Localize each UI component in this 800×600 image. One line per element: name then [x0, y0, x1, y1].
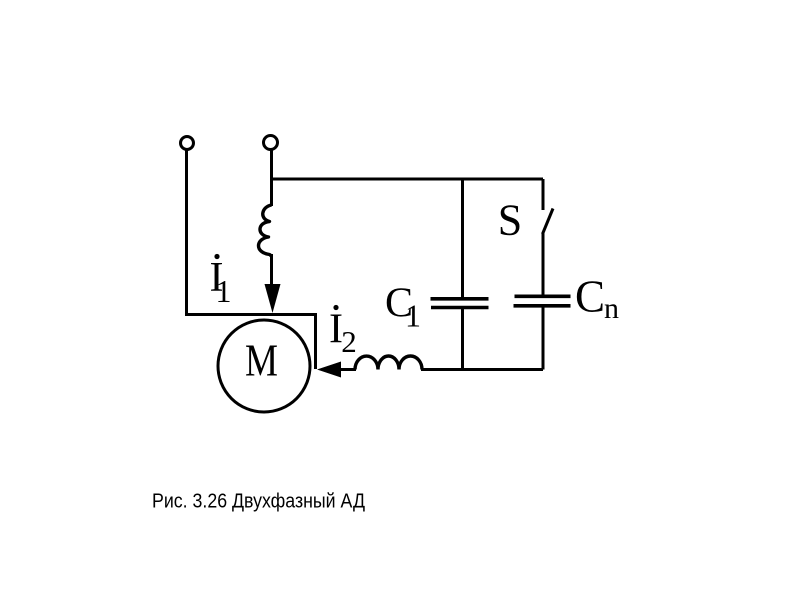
svg-text:n: n [604, 292, 619, 325]
wire: arrow tail to auxiliary inductor [339, 368, 356, 371]
capacitor Cn bottom plate [514, 304, 571, 308]
wire: switch branch upper contact [542, 179, 545, 210]
svg-text:1: 1 [405, 298, 421, 334]
wire: C1 branch lower [461, 309, 464, 370]
wire: C1 branch upper [461, 179, 464, 298]
wire: right terminal down to inductor L1 [270, 150, 273, 206]
inductor L2 (auxiliary winding, horizontal coil) [355, 356, 422, 370]
wire: switch to capacitor Cn [542, 233, 545, 296]
wire: left terminal down to motor top wire [185, 150, 188, 315]
capacitor Cn top plate [515, 294, 571, 298]
switch S blade [543, 209, 554, 235]
inductor L1 (main winding, vertical coil) [259, 205, 272, 256]
capacitor C1 top plate [431, 297, 489, 301]
wire: Cn branch lower [542, 308, 545, 370]
label I1 (dot above) [214, 254, 219, 259]
terminal T2 (right input) [264, 136, 278, 150]
svg-text:1: 1 [216, 273, 232, 309]
wire: inductor L1 to arrow [270, 254, 273, 288]
svg-text:C: C [575, 272, 605, 322]
motor M (circle) [218, 320, 310, 412]
arrow I2 (current direction into motor, pointing left) [317, 362, 341, 378]
wire: horizontal over motor and down right side [185, 315, 316, 370]
label I2 (dot above) [333, 305, 338, 310]
terminal T1 (left input) [181, 137, 194, 150]
svg-text:2: 2 [341, 324, 357, 359]
wire: top horizontal bus to capacitors [272, 178, 544, 181]
wire: bottom bus from inductor to capacitors [421, 368, 543, 371]
svg-text:M: M [245, 335, 278, 386]
arrow I1 (current direction into motor) [265, 284, 281, 313]
svg-text:Рис. 3.26 Двухфазный АД: Рис. 3.26 Двухфазный АД [152, 491, 365, 513]
svg-text:S: S [498, 196, 522, 245]
capacitor C1 bottom plate [431, 306, 489, 310]
